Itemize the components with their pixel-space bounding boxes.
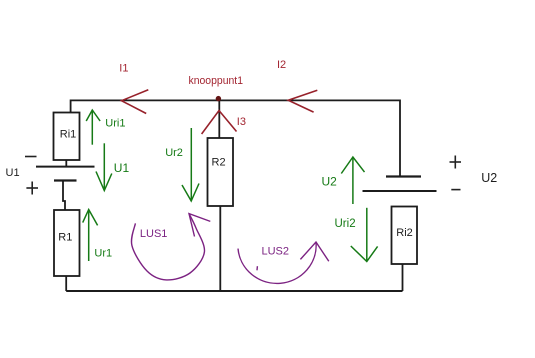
svg-text:LUS1: LUS1 bbox=[140, 228, 168, 240]
svg-text:U2: U2 bbox=[322, 175, 338, 189]
svg-text:Ur1: Ur1 bbox=[94, 248, 112, 260]
svg-text:I2: I2 bbox=[277, 59, 286, 71]
svg-text:R2: R2 bbox=[212, 157, 226, 169]
svg-text:Ri1: Ri1 bbox=[60, 129, 77, 141]
svg-text:U2: U2 bbox=[481, 171, 497, 185]
svg-text:Ur2: Ur2 bbox=[165, 147, 183, 159]
svg-text:Uri2: Uri2 bbox=[335, 218, 356, 230]
svg-text:I3: I3 bbox=[237, 116, 246, 128]
svg-text:LUS2: LUS2 bbox=[262, 246, 290, 258]
svg-text:R1: R1 bbox=[58, 232, 72, 244]
svg-text:I1: I1 bbox=[119, 63, 128, 75]
svg-text:Ri2: Ri2 bbox=[396, 227, 413, 239]
svg-text:U1: U1 bbox=[114, 161, 130, 175]
svg-text:U1: U1 bbox=[6, 167, 20, 179]
svg-text:Uri1: Uri1 bbox=[105, 118, 125, 130]
svg-text:knooppunt1: knooppunt1 bbox=[189, 75, 244, 87]
